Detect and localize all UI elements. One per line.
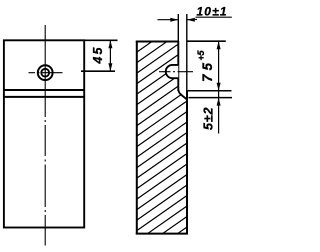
dimension 5 text	[202, 107, 216, 130]
dimension 10 left extension line	[177, 14, 179, 41]
dimension 75 and 5 line	[217, 41, 221, 133]
dimension 10 text	[197, 4, 227, 18]
front view outline	[4, 40, 84, 227]
section recess wall	[177, 41, 179, 91]
dimension 45 line	[108, 40, 112, 71]
part centerline vertical	[44, 25, 46, 246]
dimension 75-5 extension line step top	[188, 90, 232, 92]
section view bottom edge	[136, 233, 188, 235]
dimension 5 extension line step bottom	[189, 97, 233, 99]
joint line lower	[3, 96, 84, 98]
section view top edge	[136, 41, 179, 43]
svg-text:5±2: 5±2	[202, 107, 216, 130]
hole centerline horizontal	[29, 72, 63, 74]
dimension 10 line right arrow	[187, 17, 232, 22]
section step chamfer	[178, 90, 187, 100]
section view right edge	[186, 90, 188, 234]
dimension 45 top extension line	[85, 39, 118, 41]
dimension 75 tolerance text	[196, 50, 206, 61]
svg-text:+5: +5	[196, 50, 206, 61]
section hatching	[127, 10, 197, 252]
dimension 10 right extension line	[186, 14, 188, 91]
joint line upper	[3, 89, 84, 91]
hole inner circle	[41, 69, 49, 77]
dimension 75 text	[200, 63, 215, 82]
section view left edge	[136, 41, 138, 234]
hole outer circle	[38, 65, 53, 80]
svg-text:10±1: 10±1	[197, 4, 227, 18]
dimension 45 bottom extension line	[81, 70, 115, 72]
dimension 75 top extension line	[188, 40, 226, 42]
hole section notch	[166, 65, 179, 78]
dimension 10 line left arrow	[158, 18, 179, 22]
dimension 45 text	[91, 47, 105, 65]
notch centerline	[159, 71, 193, 73]
